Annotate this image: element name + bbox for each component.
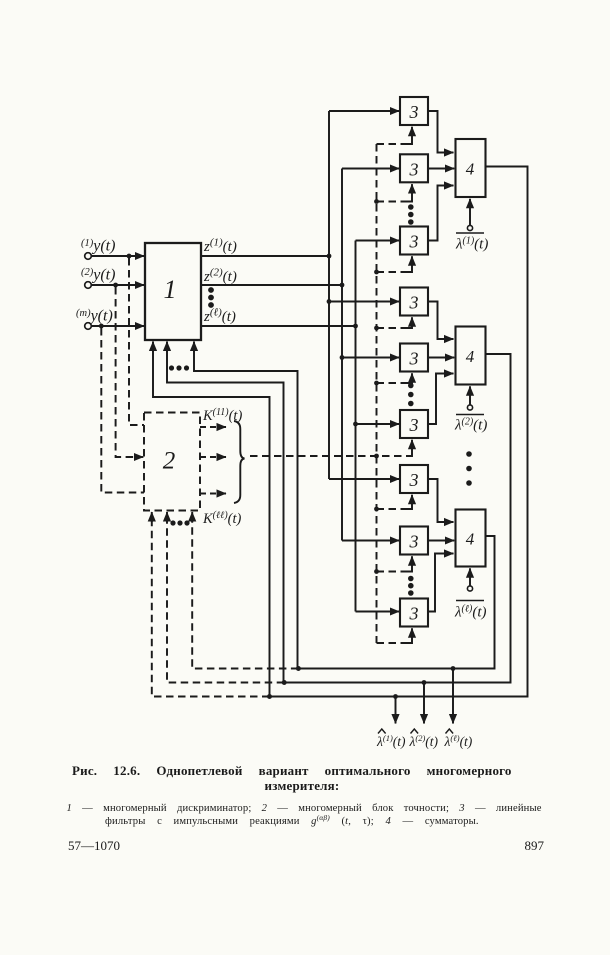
- overline of lambda-bar-3: [456, 600, 484, 602]
- node dot output estimate 1: [393, 694, 398, 699]
- dashed K branch to filter 3-7: [377, 508, 408, 510]
- ellipsis dots between z2 and z-ell: [208, 287, 214, 308]
- node dot z1 to filter row 4: [327, 299, 332, 304]
- node dot K branch 3-5: [374, 381, 379, 386]
- svg-text:Рис. 12.6. Однопетлевой вариан: Рис. 12.6. Однопетлевой вариант оптималь…: [72, 763, 512, 778]
- node dot K branch 3-3: [374, 270, 379, 275]
- svg-text:3: 3: [409, 349, 419, 369]
- input terminal T1: [85, 253, 92, 260]
- summator block 4-1: [456, 139, 486, 197]
- dashed wire K output arrow 1: [200, 426, 226, 428]
- node dot output estimate 3: [451, 666, 456, 671]
- wire filter 3-9 output to summator 4-3: [428, 554, 454, 612]
- svg-text:1 — многомерный дискриминатор;: 1 — многомерный дискриминатор; 2 — много…: [67, 803, 542, 814]
- wire filter 3-6 output to summator 4-2: [428, 374, 454, 425]
- arrow K into filter 3-2: [408, 184, 413, 201]
- arrow K into filter 3-6: [408, 440, 413, 456]
- node dot K branch 3-8: [374, 569, 379, 574]
- wire input 2 into block 1: [92, 284, 145, 286]
- input terminal T2: [85, 282, 92, 289]
- wire filter 3-3 output to summator 4-1: [428, 186, 454, 241]
- wire into filter 3-3: [356, 240, 400, 242]
- svg-text:1: 1: [164, 275, 177, 304]
- svg-text:3: 3: [409, 102, 419, 122]
- filter block 3-5: [400, 344, 428, 372]
- filter block 3-3: [400, 227, 428, 255]
- arrow K into filter 3-3: [408, 256, 413, 272]
- summator block 4-2: [456, 327, 486, 385]
- svg-text:3: 3: [409, 232, 419, 252]
- svg-text:3: 3: [409, 532, 419, 552]
- ellipsis dots between group 2 and group 3: [466, 451, 472, 486]
- dashed feedback estimate 1 into block 2 bottom: [152, 516, 270, 697]
- node dot dashed estimate 1 junction: [267, 694, 272, 699]
- svg-text:4: 4: [466, 347, 475, 366]
- wire filter 3-2 output to summator 4-1: [428, 168, 454, 170]
- ellipsis dots between 3-5 and 3-6: [408, 383, 414, 407]
- wire filter 3-7 output to summator 4-3: [428, 479, 454, 522]
- svg-text:3: 3: [409, 293, 419, 313]
- overline of lambda-bar-1: [456, 232, 484, 234]
- svg-text:3: 3: [409, 470, 419, 490]
- node z2 junction: [340, 283, 345, 288]
- arrowhead estimate 1 into block 2: [151, 512, 153, 522]
- node dot z-ell to filter row 6: [353, 422, 358, 427]
- node dot on input 2: [113, 283, 118, 288]
- wire into filter 3-4: [329, 301, 399, 303]
- arrow K into filter 3-4: [408, 317, 413, 328]
- svg-text:3: 3: [409, 604, 419, 624]
- wire z-ell distribution vertical: [355, 241, 357, 612]
- arrowhead feedback 1 into block 1: [152, 342, 154, 353]
- wire summator 4-3 output feedback loop: [194, 342, 495, 668]
- arrow K into filter 3-9: [408, 628, 413, 643]
- filter block 3-2: [400, 154, 428, 182]
- svg-text:2: 2: [163, 448, 176, 475]
- wire output arrow estimate 2: [423, 683, 425, 724]
- arrowhead feedback 3 into block 1: [193, 342, 195, 353]
- summator block 4-3: [456, 510, 486, 567]
- svg-text:фильтры с импульсными реакциям: фильтры с импульсными реакциями g(αβ) (t…: [105, 813, 479, 827]
- node dot K branch 3-7: [374, 507, 379, 512]
- input terminal T3: [85, 323, 92, 330]
- wire filter 3-8 output to summator 4-3: [428, 540, 455, 542]
- wire z2 output of block 1: [201, 284, 342, 286]
- wire summator 4-2 output feedback loop: [167, 342, 511, 682]
- node dot z2 to filter row 5: [340, 355, 345, 360]
- wire filter 3-1 output to summator 4-1: [428, 111, 454, 153]
- wire output arrow estimate 3: [452, 669, 454, 724]
- dashed K branch to filter 3-8: [377, 571, 408, 573]
- node dot K bus junction: [374, 454, 379, 459]
- dashed feedback estimate 3 into block 2 bottom: [192, 516, 298, 669]
- dashed wire y3 to block 2: [101, 328, 144, 493]
- node dot K branch 3-4: [374, 326, 379, 331]
- terminal lambda-bar-2 circle: [467, 405, 472, 410]
- wire z2 distribution vertical: [341, 169, 343, 541]
- arrowhead estimate 2 into block 2: [166, 512, 168, 522]
- node dot on input 3: [99, 324, 104, 329]
- wire input 3 into block 1: [92, 325, 145, 327]
- node dot K branch 3-2: [374, 199, 379, 204]
- node dot dashed estimate 2 junction: [282, 680, 287, 685]
- dashed K branch to filter 3-5: [377, 382, 408, 384]
- dashed K branch to filter 3-2: [377, 201, 408, 203]
- dashed K branch to filter 3-4: [377, 327, 408, 329]
- wire into filter 3-8: [342, 540, 399, 542]
- hat of output estimate 3: [446, 729, 454, 734]
- wire lambda-bar-3 into 4-3: [469, 568, 471, 585]
- filter block 3-7: [400, 465, 428, 493]
- svg-text:3: 3: [409, 159, 419, 179]
- filter block 3-9: [400, 599, 428, 627]
- filter block 3-6: [400, 410, 428, 438]
- node dot on input 1: [127, 254, 132, 259]
- curly brace collecting K outputs: [234, 421, 245, 503]
- filter block 3-4: [400, 288, 428, 316]
- wire z1 distribution vertical: [328, 111, 330, 479]
- arrowhead estimate 3 into block 2: [191, 512, 193, 522]
- wire output arrow estimate 1: [395, 697, 397, 724]
- dashed wire K output arrow 2: [200, 456, 226, 458]
- wire summator 4-1 output feedback loop: [153, 167, 528, 697]
- block 1 multidimensional discriminator: [145, 243, 201, 340]
- overline of lambda-bar-2: [456, 414, 484, 416]
- wire into filter 3-9: [356, 611, 400, 613]
- arrow K into filter 3-8: [408, 556, 413, 571]
- ellipsis dots under block 1: [169, 365, 189, 370]
- wire filter 3-4 output to summator 4-2: [428, 302, 454, 340]
- node z1 junction: [327, 254, 332, 259]
- wire z1 output of block 1: [201, 255, 329, 257]
- node dot dashed estimate 3 junction: [296, 666, 301, 671]
- ellipsis dots between 3-8 and 3-9: [408, 576, 414, 596]
- dashed K bus line to filters: [250, 455, 408, 457]
- arrowhead feedback 2 into block 1: [166, 342, 168, 353]
- wire into filter 3-1: [329, 110, 399, 112]
- wire into filter 3-7: [329, 478, 399, 480]
- svg-text:4: 4: [466, 160, 475, 179]
- wire z-ell output of block 1: [201, 325, 356, 327]
- wire lambda-bar-2 into 4-2: [469, 386, 471, 404]
- dashed feedback estimate 2 into block 2 bottom: [167, 516, 284, 683]
- node z-ell junction: [353, 324, 358, 329]
- wire filter 3-5 output to summator 4-2: [428, 357, 455, 359]
- svg-text:3: 3: [409, 415, 419, 435]
- dashed K distribution vertical: [376, 144, 378, 643]
- arrow K into filter 3-1: [408, 127, 413, 144]
- dashed K branch to filter 3-9: [377, 642, 408, 644]
- svg-text:897: 897: [525, 838, 545, 853]
- node dot output estimate 2: [422, 680, 427, 685]
- filter block 3-1: [400, 97, 428, 125]
- svg-text:57—1070: 57—1070: [68, 838, 120, 853]
- terminal lambda-bar-1 circle: [467, 225, 472, 230]
- arrow K into filter 3-7: [408, 495, 413, 509]
- svg-text:4: 4: [466, 530, 475, 549]
- wire lambda-bar-1 into 4-1: [469, 199, 471, 225]
- dashed K branch to filter 3-1: [377, 143, 408, 145]
- filter block 3-8: [400, 527, 428, 555]
- hat of output estimate 1: [378, 729, 386, 734]
- arrowhead y2 into block 2: [134, 456, 143, 458]
- hat of output estimate 2: [411, 729, 419, 734]
- ellipsis dots between 3-2 and 3-3: [408, 204, 414, 225]
- block 2 accuracy block (dashed): [144, 413, 200, 511]
- dashed wire K output arrow 3: [200, 493, 226, 495]
- wire input 1 into block 1: [92, 255, 145, 257]
- wire into filter 3-6: [356, 423, 400, 425]
- dashed K branch to filter 3-3: [377, 271, 408, 273]
- ellipsis dots under block 2: [170, 520, 189, 525]
- svg-text:измерителя:: измерителя:: [265, 778, 340, 793]
- dashed wire y2 to block 2: [116, 287, 134, 457]
- terminal lambda-bar-3 circle: [467, 586, 472, 591]
- wire into filter 3-5: [342, 357, 399, 359]
- wire into filter 3-2: [342, 168, 399, 170]
- dashed wire y1 to block 2: [129, 258, 144, 425]
- arrow K into filter 3-5: [408, 373, 413, 383]
